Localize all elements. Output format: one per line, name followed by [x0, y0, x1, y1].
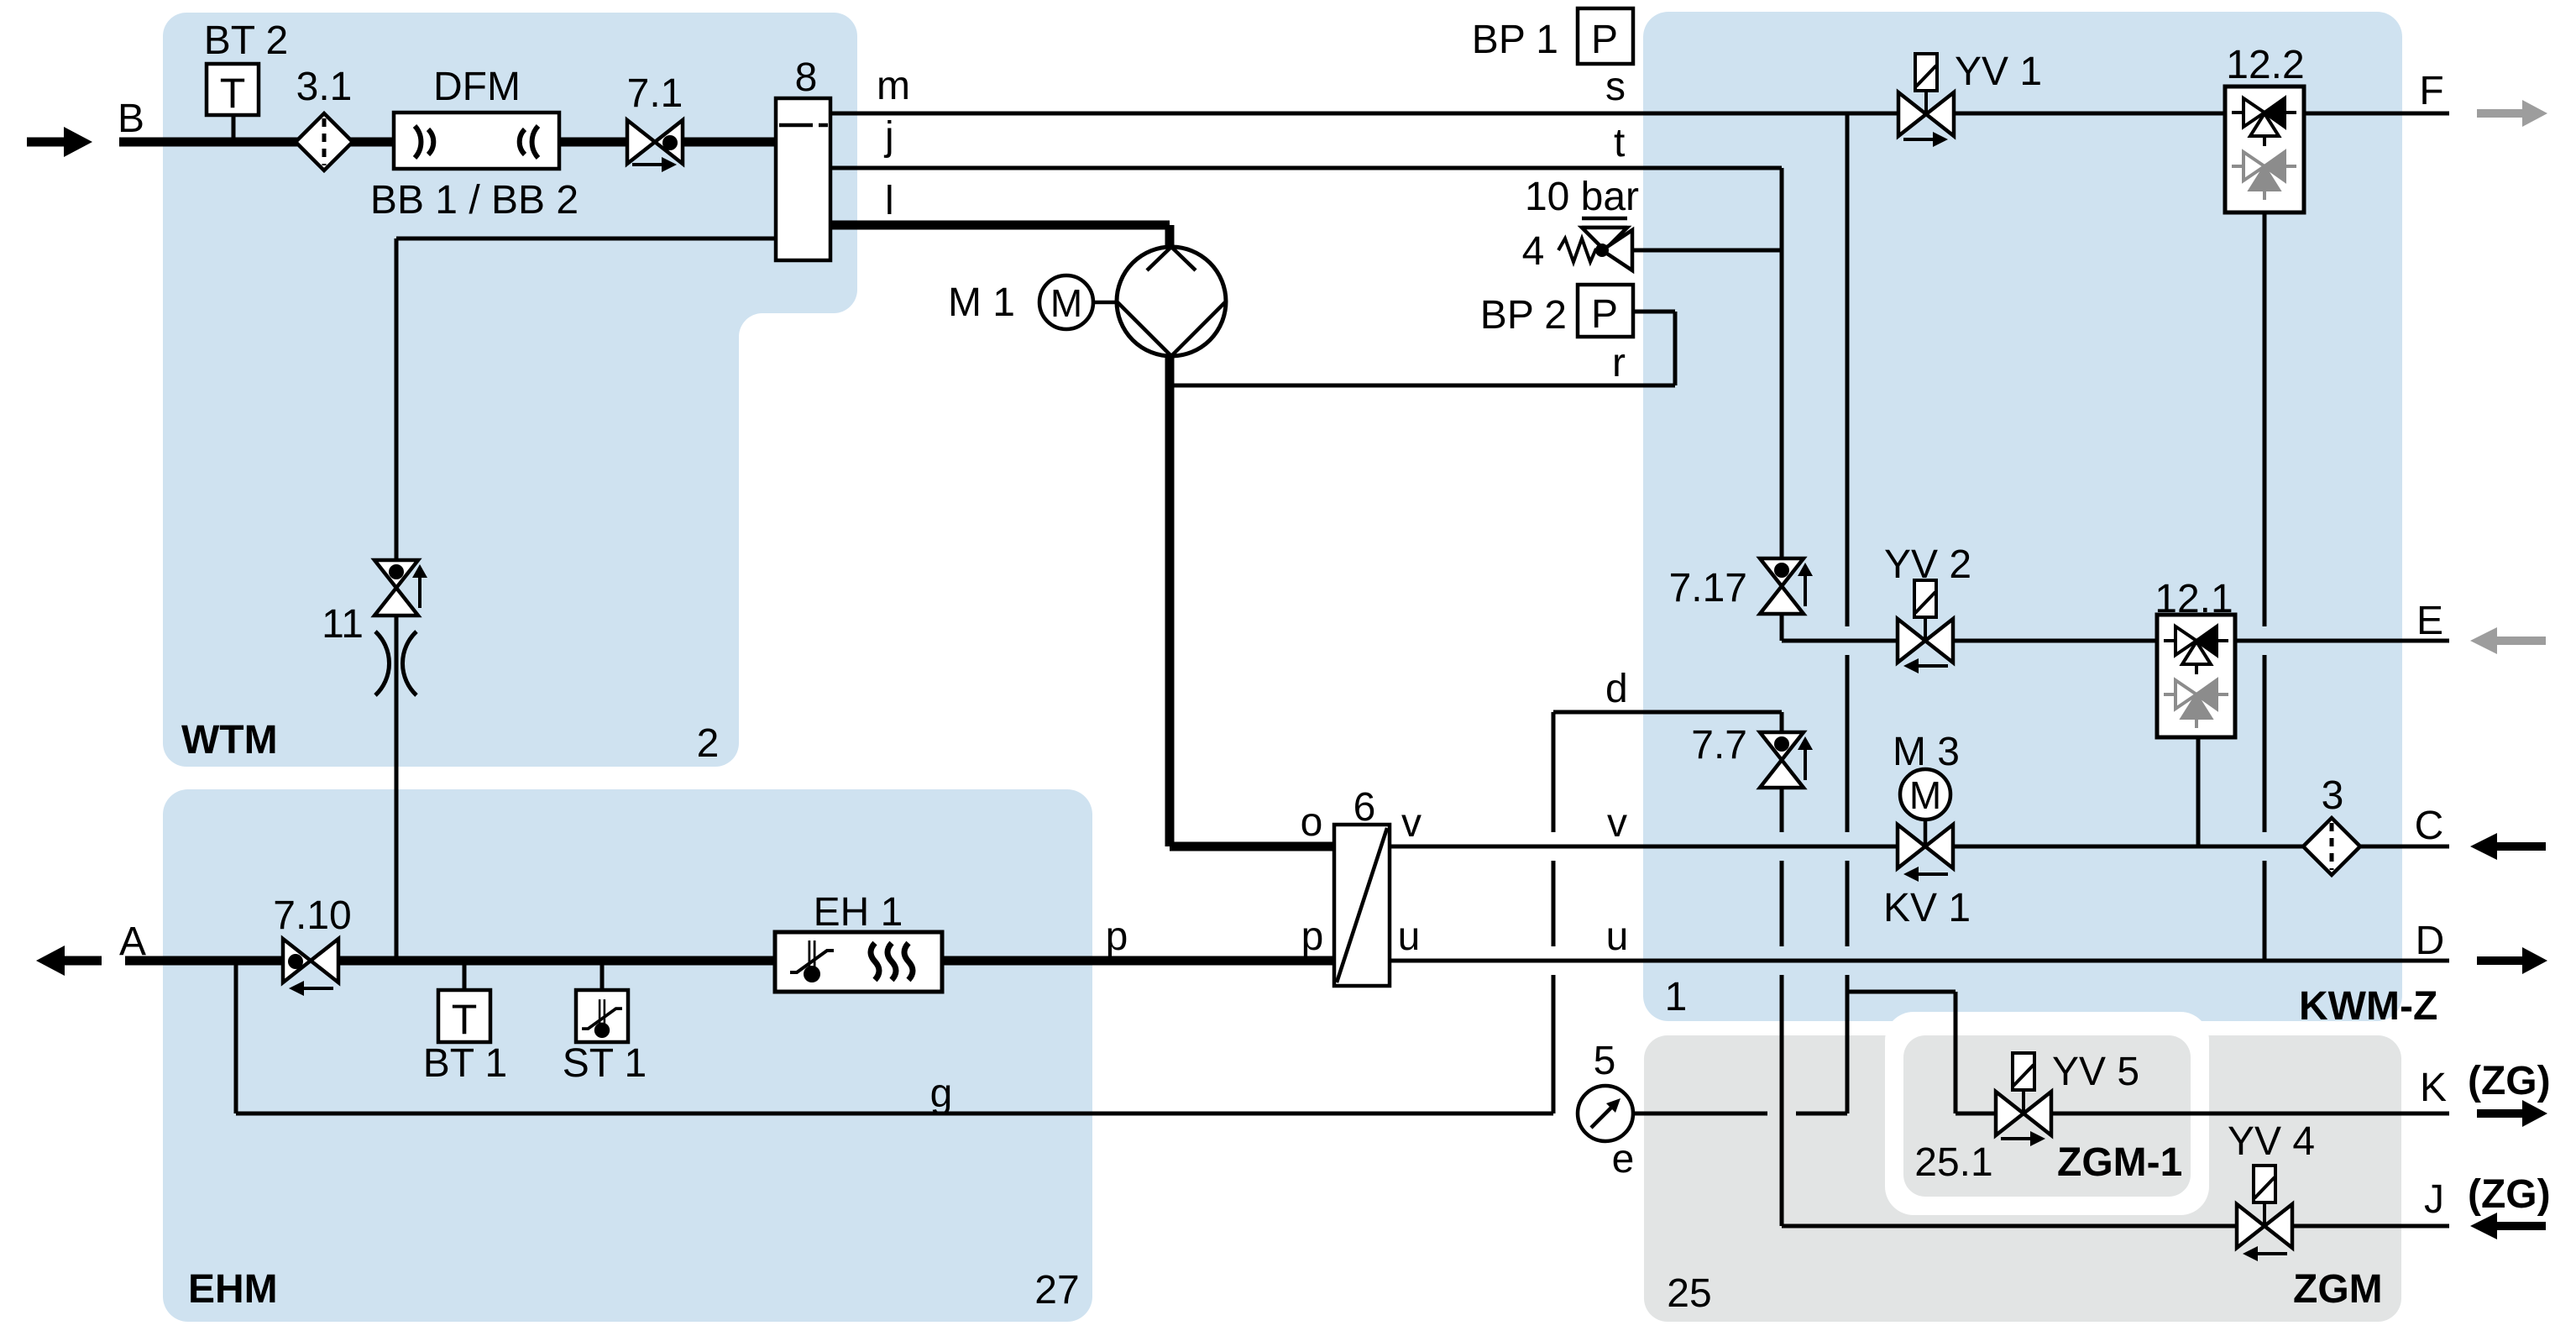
label 7.10 — [273, 893, 351, 938]
label YV 2 — [1884, 542, 1971, 587]
label YV 4 — [2228, 1119, 2315, 1164]
label v first — [1401, 801, 1422, 846]
stem BT2 — [232, 115, 236, 142]
label 3 — [2322, 773, 2344, 818]
svg-text:1: 1 — [1665, 975, 1688, 1019]
pressure sensor BP2 — [1578, 285, 1633, 337]
solenoid valve YV4 — [2237, 1166, 2292, 1261]
label g — [930, 1071, 953, 1116]
wire E — [2232, 639, 2449, 643]
check valve block 12.2 — [2225, 86, 2304, 212]
svg-text:YV 1: YV 1 — [1955, 50, 2042, 94]
wire r BP2 tap — [1170, 312, 1675, 385]
wire 7.17 to YV2 elbow — [1782, 614, 1898, 641]
module region ZGM (grey) — [1644, 1035, 2401, 1322]
label 2 — [697, 721, 720, 766]
label t — [1614, 121, 1625, 165]
label e — [1612, 1137, 1635, 1181]
valve 7.10 — [283, 939, 338, 996]
label BP 2 — [1480, 293, 1567, 338]
label ZGM-1 — [2057, 1140, 2182, 1185]
entry arrow B — [27, 127, 92, 157]
label 7.7 — [1691, 723, 1747, 768]
label ST 1 — [563, 1041, 647, 1086]
stem BT1 — [463, 961, 467, 990]
svg-text:YV 4: YV 4 — [2228, 1119, 2315, 1164]
label F — [2419, 69, 2443, 113]
wire 12.1 drop — [2196, 737, 2201, 846]
label B — [118, 97, 144, 141]
solenoid valve YV5 — [1996, 1053, 2051, 1146]
label 4 — [1522, 229, 1545, 274]
svg-text:EHM: EHM — [188, 1267, 278, 1312]
exit arrow K — [2477, 1100, 2547, 1127]
svg-text:K: K — [2420, 1066, 2447, 1110]
svg-text:10 bar: 10 bar — [1525, 175, 1639, 219]
wire l (thick) — [830, 225, 1170, 249]
label 27 — [1034, 1268, 1079, 1312]
temperature sensor BT1 — [438, 990, 490, 1043]
svg-text:BT 2: BT 2 — [204, 18, 289, 63]
label 3.1 — [296, 65, 353, 109]
label 25.1 — [1914, 1140, 1992, 1185]
svg-text:8: 8 — [795, 55, 818, 100]
label WTM — [181, 718, 278, 762]
temperature switch ST1 — [576, 990, 628, 1042]
svg-text:E: E — [2416, 599, 2443, 643]
label v second — [1607, 801, 1627, 846]
svg-text:25.1: 25.1 — [1914, 1140, 1992, 1185]
orifice restrictor — [375, 631, 416, 695]
label 11 — [322, 602, 364, 647]
exit arrow F (grey) — [2477, 100, 2547, 127]
svg-text:2: 2 — [697, 721, 720, 766]
svg-text:t: t — [1614, 121, 1625, 165]
label 7.17 — [1669, 566, 1747, 610]
svg-text:v: v — [1607, 801, 1627, 846]
entry arrow J — [2470, 1213, 2546, 1239]
label j — [883, 114, 894, 159]
svg-text:D: D — [2416, 919, 2445, 963]
label D — [2416, 919, 2445, 963]
solenoid valve YV2 — [1898, 580, 1953, 673]
svg-text:3: 3 — [2322, 773, 2344, 818]
wire B inlet (thick) — [119, 138, 776, 147]
svg-text:u: u — [1398, 914, 1421, 959]
svg-text:YV 5: YV 5 — [2052, 1050, 2139, 1094]
svg-text:(ZG): (ZG) — [2468, 1172, 2551, 1217]
svg-text:P: P — [1591, 292, 1618, 337]
svg-text:B: B — [118, 97, 144, 141]
svg-text:BP 1: BP 1 — [1472, 18, 1558, 62]
label KV 1 — [1883, 886, 1971, 930]
module region EHM (blue) — [163, 789, 1092, 1322]
svg-text:WTM: WTM — [181, 718, 278, 762]
check valve block 12.1 — [2157, 615, 2235, 737]
entry arrow C — [2470, 833, 2546, 860]
wire v KV1 line — [1390, 845, 2449, 849]
svg-text:7.1: 7.1 — [627, 71, 683, 116]
wire u D line — [1390, 959, 2449, 963]
svg-text:M: M — [1909, 773, 1941, 817]
svg-text:KV 1: KV 1 — [1883, 886, 1971, 930]
svg-text:ST 1: ST 1 — [563, 1041, 647, 1086]
svg-text:T: T — [220, 70, 246, 117]
motor valve KV1 / M3 — [1898, 769, 1953, 882]
svg-text:ZGM: ZGM — [2293, 1267, 2383, 1312]
wire g riser to d (gap-crossed) — [1552, 712, 1556, 1113]
label o — [1301, 800, 1323, 845]
label BB 1 / BB 2 — [370, 178, 579, 223]
svg-text:4: 4 — [1522, 229, 1545, 274]
svg-text:d: d — [1605, 667, 1628, 711]
module region ZGM-1 (grey) — [1903, 1035, 2191, 1197]
svg-text:12.1: 12.1 — [2155, 577, 2233, 621]
svg-text:BB 1 / BB 2: BB 1 / BB 2 — [370, 178, 579, 223]
svg-text:e: e — [1612, 1137, 1635, 1181]
svg-text:p: p — [1106, 914, 1128, 959]
valve 11 — [374, 560, 427, 616]
label d — [1605, 667, 1628, 711]
svg-text:3.1: 3.1 — [296, 65, 353, 109]
label DFM — [433, 65, 521, 109]
wire j-t — [830, 166, 1782, 170]
svg-text:J: J — [2424, 1177, 2444, 1222]
wire s branch riser (gap-crossed) — [1846, 113, 1850, 1113]
label K — [2420, 1066, 2447, 1110]
relief valve 4 (10 bar) — [1558, 218, 1632, 270]
valve 7.17 — [1760, 558, 1813, 614]
filter 3.1 — [296, 113, 353, 170]
svg-text:g: g — [930, 1071, 953, 1116]
stem ST1 — [600, 961, 605, 990]
label EH 1 — [814, 890, 903, 935]
svg-text:7.10: 7.10 — [273, 893, 351, 938]
wire pump discharge (thick) — [1170, 354, 1334, 846]
entry arrow E (grey) — [2470, 627, 2546, 654]
filter 3 — [2303, 818, 2360, 875]
label l — [885, 179, 894, 223]
exit arrow D — [2477, 947, 2547, 974]
svg-text:o: o — [1301, 800, 1323, 845]
label s — [1605, 65, 1626, 109]
label 12.2 — [2226, 43, 2304, 87]
wire A outlet (thick) — [125, 956, 1334, 966]
svg-text:6: 6 — [1353, 785, 1376, 830]
label M 3 — [1893, 730, 1960, 774]
label BT 2 — [204, 18, 289, 63]
label BP 1 — [1472, 18, 1558, 62]
label KWM-Z — [2299, 984, 2437, 1029]
svg-text:(ZG): (ZG) — [2468, 1059, 2551, 1103]
svg-text:p: p — [1301, 914, 1324, 959]
label (ZG) top — [2468, 1059, 2551, 1103]
svg-text:r: r — [1612, 341, 1626, 385]
distributor block 8 — [776, 98, 830, 260]
label p second — [1301, 914, 1324, 959]
label J — [2424, 1177, 2444, 1222]
pressure sensor BP1 — [1578, 8, 1633, 64]
svg-text:11: 11 — [322, 602, 364, 647]
svg-text:12.2: 12.2 — [2226, 43, 2304, 87]
white margin around ZGM-1 — [1885, 1012, 2209, 1215]
label r — [1612, 341, 1626, 385]
wire m-s — [830, 112, 2449, 116]
label m — [877, 64, 910, 108]
exit arrow A — [36, 946, 102, 976]
wire 7.7 drop to J elbow — [1780, 789, 1784, 1226]
svg-text:C: C — [2415, 804, 2444, 848]
svg-text:P: P — [1591, 18, 1618, 62]
svg-text:v: v — [1401, 801, 1422, 846]
label E — [2416, 599, 2443, 643]
svg-text:u: u — [1606, 914, 1629, 959]
label 10 bar — [1525, 175, 1639, 219]
heat exchanger 6 — [1334, 825, 1390, 986]
label EHM — [188, 1267, 278, 1312]
label 7.1 — [627, 71, 683, 116]
solenoid valve YV1 — [1898, 54, 1954, 147]
svg-text:25: 25 — [1667, 1271, 1711, 1316]
svg-text:j: j — [883, 114, 894, 159]
label u first — [1398, 914, 1421, 959]
label 1 — [1665, 975, 1688, 1019]
valve 7.7 — [1760, 732, 1813, 788]
label A — [119, 919, 146, 964]
svg-text:BT 1: BT 1 — [423, 1041, 508, 1086]
module region KWM-Z (blue) — [1643, 12, 2402, 1021]
valve 7.1 — [627, 120, 683, 172]
svg-text:EH 1: EH 1 — [814, 890, 903, 935]
label M 1 — [948, 280, 1015, 325]
svg-text:s: s — [1605, 65, 1626, 109]
svg-text:YV 2: YV 2 — [1884, 542, 1971, 587]
pump P1 — [1117, 247, 1226, 356]
label BT 1 — [423, 1041, 508, 1086]
wire relief branch — [1632, 249, 1782, 253]
svg-text:m: m — [877, 64, 910, 108]
svg-text:7.7: 7.7 — [1691, 723, 1747, 768]
svg-text:T: T — [452, 996, 478, 1043]
wire g branch — [236, 961, 1553, 1113]
wire YV2 to 12.1 — [1954, 639, 2158, 643]
label 6 — [1353, 785, 1376, 830]
svg-text:l: l — [885, 179, 894, 223]
label 12.1 — [2155, 577, 2233, 621]
wire K YV5 line — [1956, 1112, 2449, 1116]
label ZGM — [2293, 1267, 2383, 1312]
svg-text:M 3: M 3 — [1893, 730, 1960, 774]
module region WTM (blue) — [163, 13, 857, 767]
flow meter DFM — [394, 113, 559, 169]
svg-text:M: M — [1050, 281, 1082, 325]
svg-text:DFM: DFM — [433, 65, 521, 109]
label YV 5 — [2052, 1050, 2139, 1094]
wire J YV4 line — [1782, 1224, 2449, 1229]
wire e gauge line — [1633, 1112, 1847, 1116]
wire 12.2 drop (gap-crossed) — [2263, 212, 2267, 961]
svg-text:BP 2: BP 2 — [1480, 293, 1567, 338]
label u second — [1606, 914, 1629, 959]
wire valve 11 to A line — [395, 615, 399, 961]
heater EH1 — [775, 932, 942, 992]
label p first — [1106, 914, 1128, 959]
svg-text:5: 5 — [1594, 1039, 1616, 1083]
label 8 — [795, 55, 818, 100]
svg-text:ZGM-1: ZGM-1 — [2057, 1140, 2182, 1185]
motor M1 — [1039, 275, 1118, 329]
label (ZG) bottom — [2468, 1172, 2551, 1217]
temperature sensor BT2 — [207, 64, 259, 117]
label YV 1 — [1955, 50, 2042, 94]
svg-text:7.17: 7.17 — [1669, 566, 1747, 610]
wire d — [1553, 712, 1782, 731]
label 25 — [1667, 1271, 1711, 1316]
wire t riser to 7.17 — [1780, 168, 1784, 559]
pressure gauge 5 — [1578, 1086, 1633, 1141]
wire K jog — [1847, 992, 1956, 1113]
label C — [2415, 804, 2444, 848]
svg-text:KWM-Z: KWM-Z — [2299, 984, 2437, 1029]
label 5 — [1594, 1039, 1616, 1083]
svg-text:M 1: M 1 — [948, 280, 1015, 325]
wire 8 to valve 11 — [396, 238, 776, 561]
svg-text:F: F — [2419, 69, 2443, 113]
svg-text:27: 27 — [1034, 1268, 1079, 1312]
svg-text:A: A — [119, 919, 146, 964]
